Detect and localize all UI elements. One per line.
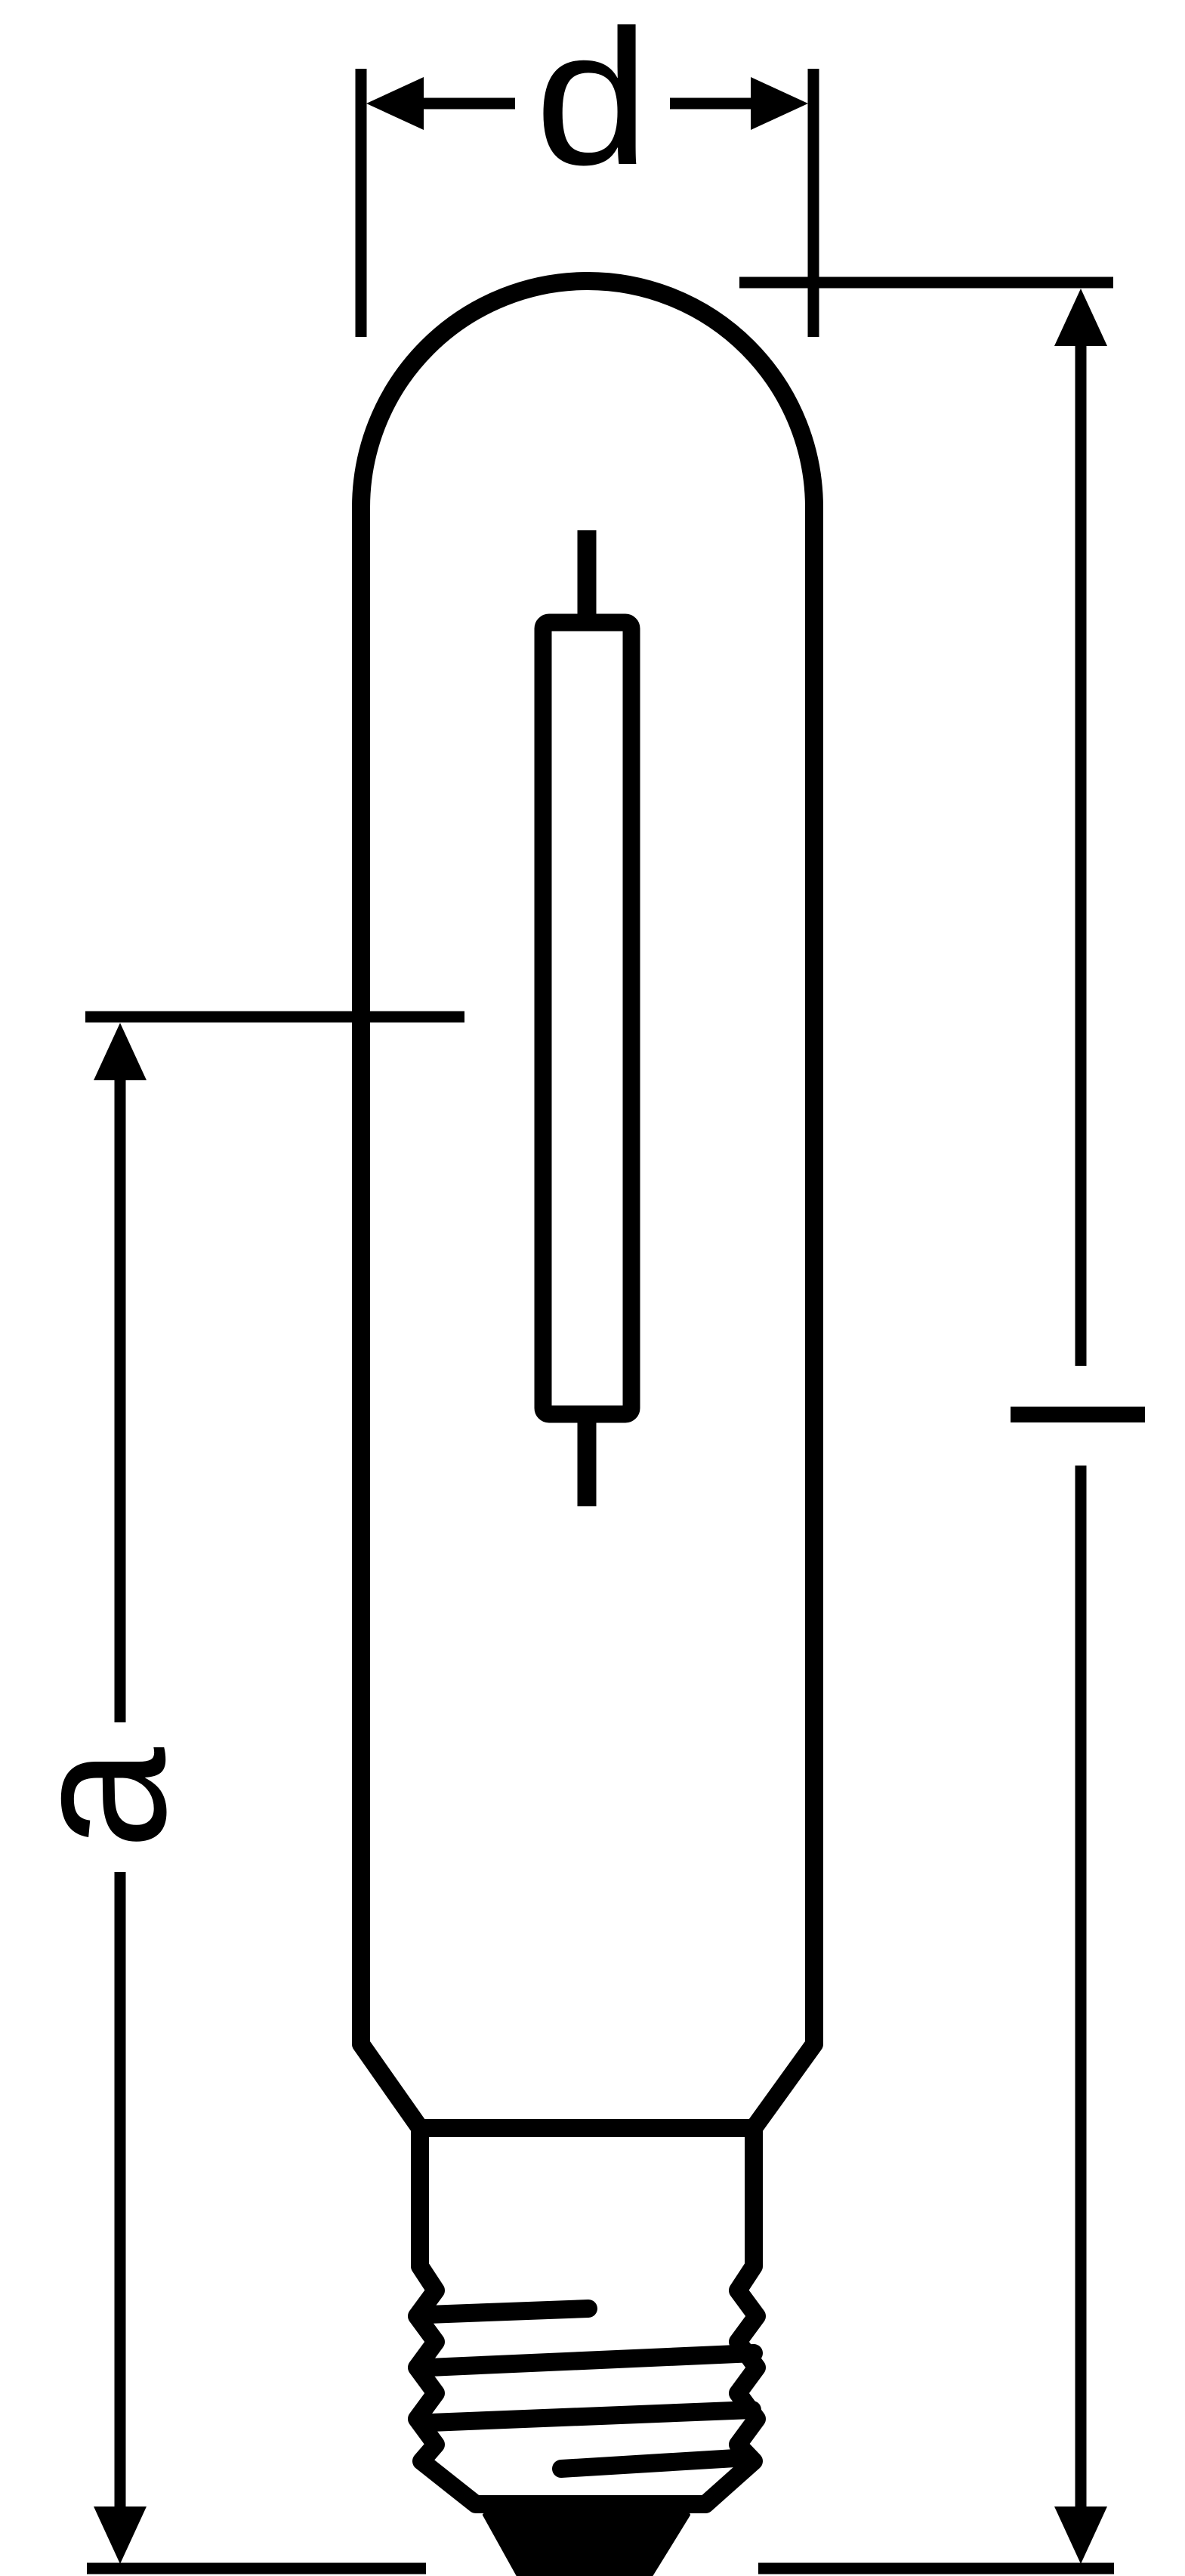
svg-text:d: d [535, 0, 650, 205]
svg-text:a: a [0, 1747, 206, 1849]
